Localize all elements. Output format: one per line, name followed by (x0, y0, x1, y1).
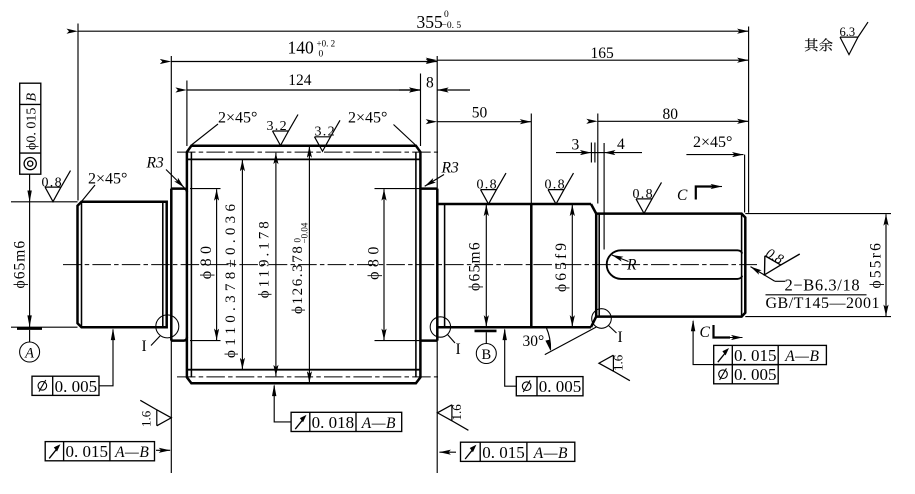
surface finish 3.2 on worm (right) (315, 120, 341, 151)
svg-text:ϕ80: ϕ80 (198, 242, 215, 280)
svg-text:0.8: 0.8 (477, 177, 498, 192)
left journal left chamfer line (81, 202, 83, 327)
svg-text:355: 355 (417, 12, 444, 32)
φ65m6/φ65f9 boundary line (530, 204, 533, 327)
feature control frame: circular runout 0.015 A—B (bottom left) (45, 442, 154, 462)
roughness note 其余 (rest) (805, 38, 833, 51)
svg-text:C: C (700, 324, 711, 341)
svg-text:30°: 30° (523, 333, 545, 350)
30° chamfer edges at φ65f9 right end (591, 204, 596, 327)
dim 140 +0.2/0 worm section length (171, 61, 437, 63)
worm root line top (187, 158, 420, 160)
extension line: keyway start (4) (603, 143, 605, 250)
svg-text:A—B: A—B (533, 445, 568, 462)
svg-text:0. 005: 0. 005 (539, 377, 582, 396)
detail circle I at left shoulder relief (156, 315, 179, 338)
svg-text:R3: R3 (146, 155, 164, 172)
leader arrow of bottom-left frame (156, 449, 170, 451)
extension line: 50 right (m6/f9 boundary) (530, 114, 532, 204)
svg-text:A: A (24, 346, 34, 362)
leader of 0.018 frame (274, 386, 291, 422)
detail circle I at right collar relief (430, 317, 450, 337)
svg-text:2×45°: 2×45° (88, 171, 127, 188)
svg-text:GB/T145—2001: GB/T145—2001 (766, 295, 880, 312)
extension line: φ55 bottom edge extended right (φ55r6) (745, 316, 891, 318)
extension line: shaft right end (355/165) (748, 27, 750, 213)
feature control frame: cylindricity 0.005 (left, under journal) (32, 376, 99, 396)
dim φ126.378 0/-0.04 (worm tip) (308, 146, 310, 265)
svg-text:A—B: A—B (114, 444, 149, 461)
svg-text:ϕ119.178: ϕ119.178 (257, 218, 273, 298)
svg-text:ϕ65f9: ϕ65f9 (553, 240, 570, 292)
feature control frame: circular runout 0.015 A—B (right end) (714, 345, 827, 365)
dim φ119.178 (worm pitch) (275, 153, 277, 265)
svg-text:ϕ110.378±0.036: ϕ110.378±0.036 (223, 200, 239, 358)
svg-text:8: 8 (426, 75, 434, 92)
leader arrow of center frame (439, 451, 456, 453)
dim φ80 left (216, 189, 218, 265)
second shoulder line (598, 214, 600, 317)
worm right chamfer line (415, 152, 417, 377)
dim 3 and 4 chained, outside arrows (556, 152, 591, 154)
extension line: left journal bottom edge extended left (11, 326, 78, 328)
left journal right chamfer line (162, 202, 164, 327)
surface finish 0.8 on φ55r6 (636, 182, 662, 213)
dim φ65m6 left journal with leader from frame (29, 174, 31, 327)
svg-text:ϕ80: ϕ80 (366, 242, 383, 280)
dim 80 keyway section (598, 120, 749, 122)
extension line: worm left shoulder, long (140/F1/1.6) (170, 56, 172, 473)
svg-text:124: 124 (288, 72, 312, 89)
svg-text:R3: R3 (441, 160, 459, 177)
extension line: shaft left end face (355) (77, 24, 79, 201)
dim 8 (right collar width), outside arrows (399, 89, 421, 91)
surface finish 0.8 rotated on center-hole leader (757, 239, 800, 285)
right shoulder face (436, 189, 439, 341)
svg-text:B: B (481, 347, 491, 363)
leader of right-end frames (693, 321, 714, 365)
worm left chamfer line (190, 152, 192, 377)
surface finish 1.6 left (on shoulder ext line) (140, 400, 171, 426)
svg-text:3.2: 3.2 (267, 119, 288, 134)
svg-text:A—B: A—B (361, 415, 396, 432)
worm pitch line top (chain) (177, 151, 438, 153)
dim φ110.378±0.036 (worm root) (241, 160, 243, 265)
svg-text:1.6: 1.6 (611, 354, 626, 371)
surface finish 0.8 on left journal (45, 171, 71, 202)
svg-text:1.6: 1.6 (449, 404, 464, 421)
svg-text:6.3: 6.3 (840, 25, 856, 39)
dim φ65f9 (571, 205, 573, 265)
svg-text:80: 80 (663, 106, 679, 123)
dim φ80 right (383, 189, 385, 265)
dim 165 (437, 59, 748, 61)
right collar φ80 (420, 189, 437, 341)
svg-text:ϕ0. 015: ϕ0. 015 (25, 108, 40, 150)
svg-text:I: I (456, 341, 461, 358)
svg-text:2×45°: 2×45° (693, 134, 732, 151)
svg-text:3.2: 3.2 (315, 124, 336, 139)
svg-text:0.8: 0.8 (545, 177, 566, 192)
worm pitch line bottom (chain) (177, 376, 438, 378)
dim 355 0/-0.5 overall length (78, 30, 749, 32)
centerline (shaft axis) (63, 264, 757, 266)
extension line: worm right end, long (140/50/8/F3/1.6) (436, 56, 438, 473)
feature control frame: circular runout 0.015 A—B (bottom center-right) (461, 442, 575, 462)
end chamfer line 2×45° (741, 214, 743, 317)
svg-text:I: I (618, 329, 623, 346)
shoulder face φ65f9/φ55r6 (595, 214, 598, 317)
center hole callout: leader arrow at end face (751, 267, 775, 282)
surface finish 3.2 on worm (left) (273, 115, 299, 146)
svg-text:0. 018: 0. 018 (312, 413, 355, 432)
surface finish 0.8 on right journal φ65m6 (481, 173, 507, 204)
svg-text:0. 005: 0. 005 (734, 365, 777, 384)
extension line: 124 left (186, 81, 188, 147)
svg-text:ϕ126.378: ϕ126.378 (290, 245, 306, 314)
surface finish 1.6 right (on φ55 shoulder ext line) (599, 355, 630, 381)
30° chamfer angle line (545, 327, 597, 355)
roughness note 6.3 symbol (840, 22, 868, 55)
svg-text:ϕ65m6: ϕ65m6 (12, 240, 29, 289)
svg-text:ϕ55r6: ϕ55r6 (868, 241, 885, 289)
worm section outline (φ126.378 tip) (187, 146, 421, 384)
feature control frame: circular runout 0.018 A—B (bottom middle) (291, 412, 402, 432)
svg-text:165: 165 (591, 45, 615, 62)
right journal chamfer line (444, 204, 446, 327)
feature control frame: concentricity φ0.015 B (vertical, top left) (20, 83, 41, 174)
feature control frame: cylindricity 0.005 (under datum B) (516, 377, 583, 397)
left journal φ65m6 outline (78, 202, 167, 327)
extension line: left journal top edge extended left (11, 201, 78, 203)
svg-text:3: 3 (572, 137, 580, 154)
extension line: 3-dim right stub (594, 143, 596, 163)
datum B symbol (475, 330, 497, 333)
detail circle I at φ55 shoulder relief (592, 309, 612, 329)
svg-text:R: R (626, 257, 637, 274)
extension line: right collar bottom edge extended left (φ80) (375, 340, 421, 342)
svg-text:0. 015: 0. 015 (734, 346, 777, 365)
svg-text:50: 50 (472, 105, 488, 122)
svg-text:0. 005: 0. 005 (55, 377, 98, 396)
dim 124 (187, 89, 421, 91)
dim φ65m6 right journal (485, 205, 487, 265)
svg-text:I: I (142, 338, 147, 355)
extension line: left collar bottom edge extended right (φ80) (190, 340, 221, 342)
leader of right 0.005 frame (505, 330, 517, 387)
svg-text:0.8: 0.8 (42, 175, 63, 190)
svg-text:2×45°: 2×45° (218, 110, 257, 127)
svg-text:0: 0 (319, 50, 324, 60)
svg-text:1.6: 1.6 (139, 410, 154, 427)
φ55r6 end section outline (596, 214, 745, 317)
svg-text:C: C (677, 187, 688, 204)
svg-text:0: 0 (444, 10, 449, 20)
30° dimension arc (546, 327, 550, 349)
surface finish 0.8 on φ65f9 (548, 173, 574, 204)
svg-text:A—B: A—B (784, 348, 819, 365)
30° arc arrowhead (545, 340, 550, 352)
worm root line bottom (187, 369, 420, 371)
svg-text:−0. 5: −0. 5 (442, 21, 462, 31)
svg-text:B: B (25, 93, 40, 102)
extension line: φ55 top edge extended right (φ55r6) (745, 213, 891, 215)
surface finish 1.6 middle (on worm right ext line) (437, 405, 468, 431)
keyway slot (607, 250, 743, 279)
extension line: right collar top edge extended left (φ80) (375, 188, 421, 190)
svg-text:ϕ65m6: ϕ65m6 (467, 241, 484, 291)
feature control frame: cylindricity 0.005 (right end) (714, 365, 779, 385)
svg-text:4: 4 (617, 136, 625, 153)
extension line: left collar top edge extended right (φ80) (190, 188, 221, 190)
leader of left 0.005 frame (99, 330, 113, 386)
svg-text:0. 015: 0. 015 (66, 442, 109, 461)
extension line: 3-dim left (30° chamfer start) (590, 143, 592, 163)
right journal φ65m6/φ65f9 outline (438, 204, 592, 327)
extension line: 80-dim left / shoulder face extended up (597, 114, 599, 204)
svg-text:140: 140 (288, 38, 315, 58)
svg-text:0.8: 0.8 (633, 187, 654, 202)
dim φ55r6 (885, 214, 887, 265)
datum A symbol (17, 327, 42, 330)
left shoulder face (170, 189, 173, 341)
left collar φ80 (shoulder) (171, 189, 187, 341)
svg-text:2−B6.3/18: 2−B6.3/18 (785, 276, 861, 295)
svg-text:+0. 2: +0. 2 (317, 39, 336, 49)
svg-text:0. 015: 0. 015 (482, 443, 525, 462)
dim 50 right journal (437, 121, 531, 123)
svg-text:2×45°: 2×45° (348, 110, 387, 127)
extension line: 124/8 right (420, 74, 422, 147)
svg-text:−0.04: −0.04 (300, 222, 310, 243)
